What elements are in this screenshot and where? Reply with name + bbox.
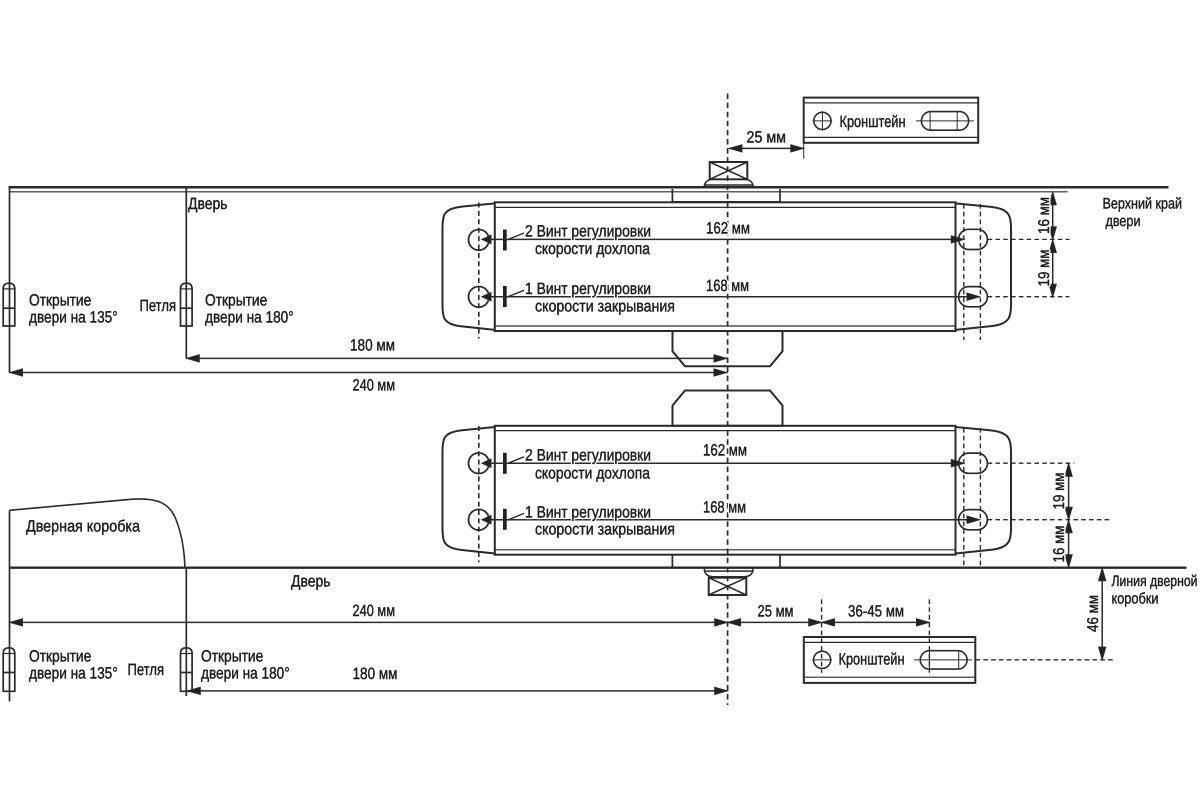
closer body (lower assembly) bbox=[495, 426, 956, 555]
adjustment screw 2 circle (lower) bbox=[469, 453, 490, 474]
bracket slot (lower) bbox=[920, 651, 967, 669]
left door edge vertical (lower) bbox=[9, 510, 11, 701]
adjustment screw 2 circle (top) bbox=[469, 230, 490, 251]
svg-text:16 мм: 16 мм bbox=[1051, 526, 1068, 563]
svg-text:19 мм: 19 мм bbox=[1051, 473, 1068, 510]
svg-text:240 мм: 240 мм bbox=[353, 602, 396, 620]
mounting slot lower (lower right) bbox=[959, 510, 988, 530]
svg-text:180 мм: 180 мм bbox=[353, 665, 398, 683]
dashed extension from slot 1 (top) bbox=[988, 238, 1070, 240]
arm shoe below body (top) bbox=[673, 331, 783, 366]
centre dashed axis of closer spindle bbox=[727, 94, 729, 706]
svg-text:Открытие: Открытие bbox=[205, 291, 267, 309]
bracket hole circle (top) bbox=[814, 112, 831, 129]
svg-text:Открытие: Открытие bbox=[201, 648, 263, 666]
dimension 240 мм (top) bbox=[10, 372, 728, 374]
mounting slot dashed verticals (lower right) bbox=[963, 428, 965, 566]
dimension 25 мм (top) bbox=[729, 147, 804, 149]
dashed line bracket slot centre to 46 dim (lower) bbox=[976, 659, 1114, 661]
svg-text:240 мм: 240 мм bbox=[353, 376, 396, 394]
dimension 19 мм (top right) bbox=[1052, 239, 1054, 296]
leader line to screw 1 label (top) bbox=[507, 290, 524, 297]
svg-text:Петля: Петля bbox=[128, 661, 165, 679]
dashed extension from slot 2 (top) bbox=[988, 296, 1070, 298]
svg-text:коробки: коробки bbox=[1112, 591, 1159, 608]
dimension 180 мм (lower) bbox=[186, 690, 727, 692]
hinge symbol right (lower assembly) bbox=[181, 648, 193, 692]
pinion square with X (lower) bbox=[709, 578, 747, 595]
svg-text:16 мм: 16 мм bbox=[1036, 197, 1053, 234]
dimension 19 мм (lower right) bbox=[1068, 463, 1070, 520]
screw slot bar 2 (lower) bbox=[503, 453, 507, 474]
bracket Кронштейн (top) bbox=[804, 98, 979, 143]
svg-text:Дверь: Дверь bbox=[188, 195, 228, 213]
leader line to screw 2 label (top) bbox=[507, 233, 524, 240]
bracket slot (top) bbox=[921, 112, 968, 131]
arm shoe above body (lower) bbox=[673, 391, 783, 426]
dashed extension from slot 1 (lower) bbox=[988, 462, 1075, 464]
svg-text:двери на 135°: двери на 135° bbox=[29, 309, 118, 327]
svg-text:скорости дохлопа: скорости дохлопа bbox=[535, 464, 651, 482]
svg-text:двери на 180°: двери на 180° bbox=[205, 309, 294, 327]
dimension 46 мм (lower right) bbox=[1101, 568, 1103, 660]
168 мм arrow line (top) bbox=[482, 296, 980, 298]
svg-text:двери на 135°: двери на 135° bbox=[29, 665, 118, 683]
svg-text:Линия дверной: Линия дверной bbox=[1112, 573, 1198, 590]
adjustment screw 1 circle (top) bbox=[469, 287, 490, 308]
mounting plate (lower) bbox=[672, 555, 780, 568]
svg-text:Дверная коробка: Дверная коробка bbox=[26, 518, 141, 536]
svg-text:Верхний край: Верхний край bbox=[1103, 196, 1183, 213]
svg-text:36-45 мм: 36-45 мм bbox=[848, 602, 904, 620]
leader line to screw 1 label (lower) bbox=[507, 513, 524, 520]
screw slot bar 1 (lower) bbox=[503, 509, 507, 530]
svg-text:Кронштейн: Кронштейн bbox=[840, 113, 906, 131]
svg-text:25 мм: 25 мм bbox=[747, 129, 787, 147]
svg-text:скорости закрывания: скорости закрывания bbox=[535, 297, 675, 315]
mounting plate (top) bbox=[672, 189, 780, 202]
closer right end cap (top) bbox=[956, 203, 1012, 330]
svg-text:скорости дохлопа: скорости дохлопа bbox=[535, 240, 651, 258]
door frame curve (Дверная коробка) bbox=[10, 499, 185, 567]
162 мм arrow line (top) bbox=[482, 238, 964, 240]
mounting slot lower (top right) bbox=[959, 287, 988, 307]
svg-text:162 мм: 162 мм bbox=[703, 442, 747, 460]
svg-text:25 мм: 25 мм bbox=[758, 602, 794, 620]
extension line below bracket (top) bbox=[803, 143, 805, 159]
hinge symbol left (lower assembly) bbox=[3, 648, 15, 692]
leader line to screw 2 label (lower) bbox=[507, 457, 524, 464]
screw axis dashed line (lower) bbox=[478, 426, 480, 562]
svg-text:двери на 180°: двери на 180° bbox=[201, 665, 290, 683]
pinion collar dome (top) bbox=[705, 179, 753, 185]
168 мм arrow line (lower) bbox=[482, 519, 980, 521]
dashed extension from slot 2 (lower) bbox=[988, 519, 1110, 521]
door leaf top line (thin) bbox=[10, 191, 1068, 193]
svg-text:162 мм: 162 мм bbox=[706, 220, 750, 238]
dimension 16 мм (top right) bbox=[1052, 192, 1054, 240]
hinge symbol right (top assembly) bbox=[181, 283, 193, 326]
svg-text:Дверь: Дверь bbox=[291, 573, 331, 591]
closer left end cap (lower) bbox=[443, 427, 495, 554]
svg-text:1 Винт регулировки: 1 Винт регулировки bbox=[525, 280, 651, 298]
svg-text:2 Винт регулировки: 2 Винт регулировки bbox=[525, 446, 651, 464]
door top edge line (thick) bbox=[9, 186, 1169, 189]
dimension 25 мм (lower) bbox=[728, 621, 822, 623]
dimension 240 мм (lower) bbox=[10, 621, 728, 623]
closer body (top assembly) bbox=[495, 202, 956, 331]
svg-text:Открытие: Открытие bbox=[29, 291, 91, 309]
hinge axis vertical (lower) bbox=[185, 568, 187, 696]
svg-text:Открытие: Открытие bbox=[29, 648, 91, 666]
left door edge vertical (top) bbox=[9, 187, 11, 372]
svg-text:2 Винт регулировки: 2 Винт регулировки bbox=[525, 223, 651, 241]
pinion square with X (top) bbox=[710, 162, 748, 179]
svg-text:двери: двери bbox=[1106, 213, 1141, 230]
svg-text:180 мм: 180 мм bbox=[350, 336, 395, 354]
hinge symbol left (top assembly) bbox=[3, 283, 15, 326]
svg-text:Петля: Петля bbox=[140, 297, 177, 315]
dimension 180 мм (top) bbox=[186, 357, 727, 359]
door frame line (lower) bbox=[10, 567, 1187, 569]
screw slot bar 2 (top) bbox=[503, 230, 507, 251]
svg-text:Кронштейн: Кронштейн bbox=[839, 651, 905, 669]
bracket Кронштейн (lower) bbox=[804, 637, 976, 683]
hinge axis vertical (top) bbox=[185, 187, 187, 358]
svg-text:19 мм: 19 мм bbox=[1036, 250, 1053, 287]
bracket hole circle (lower) bbox=[814, 651, 831, 668]
adjustment screw 1 circle (lower) bbox=[469, 509, 490, 530]
bracket dashed verticals (lower) bbox=[821, 599, 823, 672]
pinion collar dome (lower) bbox=[704, 568, 706, 571]
screw axis dashed line (top) bbox=[478, 203, 480, 339]
closer left end cap (top) bbox=[443, 203, 495, 330]
mounting slot upper (lower right) bbox=[959, 453, 988, 473]
screw slot bar 1 (top) bbox=[503, 286, 507, 307]
svg-text:168 мм: 168 мм bbox=[703, 499, 746, 517]
mounting slot upper (top right) bbox=[959, 229, 988, 249]
svg-text:1 Винт регулировки: 1 Винт регулировки bbox=[525, 503, 651, 521]
dimension 36-45 мм (lower) bbox=[822, 621, 930, 623]
svg-text:168 мм: 168 мм bbox=[706, 277, 749, 295]
svg-text:скорости закрывания: скорости закрывания bbox=[535, 521, 675, 539]
svg-text:46 мм: 46 мм bbox=[1085, 595, 1102, 632]
mounting slot dashed verticals (top right) bbox=[963, 204, 965, 340]
closer right end cap (lower) bbox=[956, 427, 1012, 554]
162 мм arrow line (lower) bbox=[482, 462, 964, 464]
dimension 16 мм (lower right) bbox=[1068, 520, 1070, 568]
